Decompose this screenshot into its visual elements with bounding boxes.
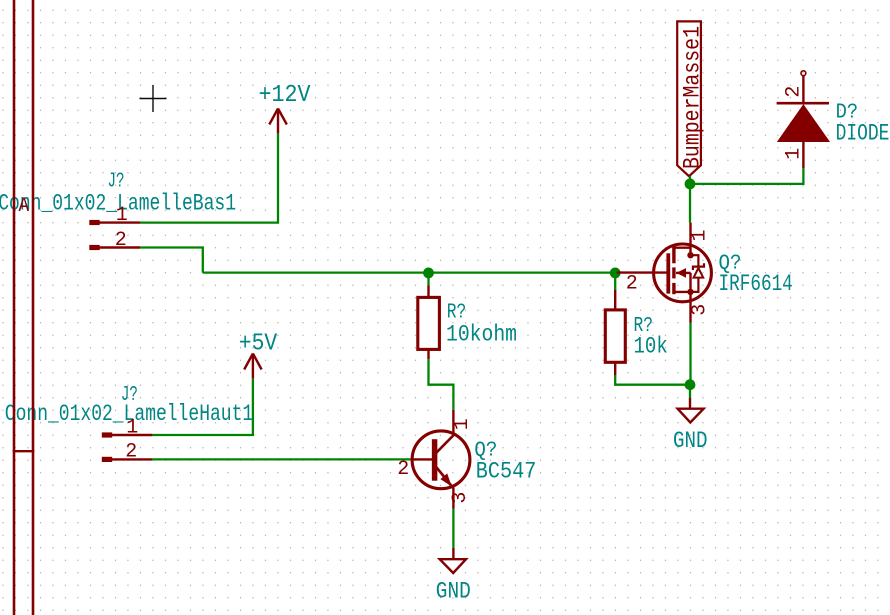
svg-text:2: 2 [626, 272, 638, 295]
junction at GND2 [685, 379, 696, 390]
Q1 channel segment bottom [672, 283, 675, 294]
Q1 body circle [654, 244, 712, 302]
svg-text:2: 2 [783, 86, 806, 98]
Q1 gate pin [617, 271, 669, 273]
svg-text:BC547: BC547 [476, 459, 537, 485]
Q1 channel segment middle [672, 267, 675, 278]
Q1 body diode triangle [694, 268, 704, 278]
junction at label / diode branch [685, 179, 696, 190]
svg-text:2: 2 [125, 440, 137, 463]
svg-text:1: 1 [783, 148, 806, 160]
Q1 drain link [674, 246, 691, 248]
svg-text:10kohm: 10kohm [446, 322, 517, 348]
wire label to Q1 drain [689, 176, 691, 223]
connector J2 pin 1 [102, 416, 153, 439]
diode D1 [777, 71, 829, 168]
Q1 internal junction dot bottom [687, 289, 693, 295]
Q2 collector diagonal [436, 435, 453, 453]
ground GND1 [440, 548, 466, 573]
svg-text:1: 1 [689, 229, 712, 241]
svg-text:2: 2 [397, 458, 409, 481]
junction on bus at R1 [423, 268, 434, 279]
wire R2 to ground junction [615, 375, 690, 385]
svg-text:+12V: +12V [259, 82, 312, 109]
wire junction to R2 [614, 273, 616, 291]
frame row divider tick [13, 450, 35, 452]
svg-text:3: 3 [449, 492, 472, 504]
wire R1 to Q2 collector [429, 359, 454, 410]
Q1 bulk link [676, 272, 691, 274]
svg-text:3: 3 [689, 304, 712, 316]
svg-text:DIODE: DIODE [836, 121, 890, 147]
wire pin1 J1 to +12V corner [140, 133, 278, 222]
cursor crosshair [140, 85, 167, 112]
resistor R2 10k [605, 290, 625, 375]
wire +5V to J2 pin 1 [152, 379, 253, 435]
frame left border line 2 [32, 0, 35, 615]
frame left border line 1 [13, 0, 16, 615]
wire junction to diode D1 [690, 168, 803, 184]
svg-text:BumperMasse1: BumperMasse1 [680, 26, 706, 169]
Q1 body diode cathode bar [693, 263, 704, 270]
svg-text:2: 2 [115, 229, 127, 252]
connector J1 pin 2 [89, 229, 140, 252]
Q1 internal junction dot top [687, 252, 693, 258]
power symbol +12V [269, 109, 287, 134]
svg-text:GND: GND [436, 579, 471, 605]
Q2 collector pin line [452, 410, 454, 436]
svg-text:10k: 10k [634, 334, 668, 360]
ground GND2 [678, 398, 704, 422]
svg-text:1: 1 [451, 418, 474, 430]
power symbol +5V [244, 354, 261, 379]
svg-text:IRF6614: IRF6614 [719, 271, 793, 297]
svg-text:+5V: +5V [239, 331, 278, 358]
wire Q1 source to ground junction [689, 323, 691, 385]
Q2 base bar [432, 439, 438, 481]
Q1 channel segment top [672, 246, 675, 263]
Q2 body circle [412, 431, 470, 489]
transistor Q2 BC547 [410, 410, 470, 509]
Q2 emitter arrow [440, 473, 451, 486]
Q2 emitter diagonal [436, 467, 453, 489]
wire pin2 J1 to bus row [140, 248, 203, 273]
mosfet Q1 IRF6614 [617, 223, 712, 323]
connector J2 pin 2 [102, 440, 153, 463]
resistor R1 10kohm [418, 286, 440, 360]
wire junction to GND2 [689, 385, 691, 399]
svg-text:GND: GND [673, 428, 708, 454]
Q1 source pin line [689, 273, 691, 323]
Q2 emitter pin line [452, 488, 454, 509]
connector J1 pin 1 [89, 204, 140, 227]
Q1 bulk arrow [676, 268, 686, 278]
wire Q2 emitter to GND1 [452, 509, 454, 549]
wire junction to R1 [427, 273, 429, 286]
Q2 base pin [410, 458, 432, 460]
global label BumperMasse1 [677, 21, 705, 176]
Q1 source link [674, 291, 691, 293]
svg-text:1: 1 [116, 204, 128, 227]
Q1 gate bar [666, 253, 670, 293]
wire J2 pin 2 to Q2 base [152, 458, 410, 460]
Q1 drain pin line [689, 223, 691, 256]
junction on bus at R2 / Q1 gate [610, 268, 621, 279]
svg-text:A: A [19, 195, 30, 218]
svg-text:1: 1 [126, 416, 138, 439]
Q1 body diode anode branch [691, 278, 699, 292]
wire long horizontal net row [203, 271, 615, 273]
Q1 body diode branch [691, 255, 699, 266]
